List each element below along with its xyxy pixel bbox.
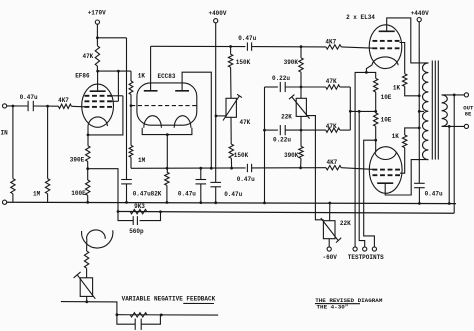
potentiometer balance 22K (box) xyxy=(296,98,306,116)
terminal OUT hot xyxy=(464,93,468,97)
EL34 lower cathode cup xyxy=(375,153,396,160)
svg-text:1M: 1M xyxy=(138,157,146,164)
node screen/+440V junction (lower) xyxy=(418,127,421,130)
EF86 control grid (dashed row 3) xyxy=(85,106,90,108)
node 10E junction xyxy=(374,110,377,113)
wire input to coupling cap xyxy=(7,105,28,107)
svg-text:VARIABLE NEGATIVE FEEDBACK: VARIABLE NEGATIVE FEEDBACK xyxy=(122,295,216,302)
node feedback/divider right xyxy=(159,210,162,213)
svg-text:150K: 150K xyxy=(234,152,249,159)
wire cap to 4K7 xyxy=(33,105,58,107)
capacitor 0.22u (upper) xyxy=(279,82,281,92)
potentiometer balance 47K (box) xyxy=(226,98,236,117)
ECC83 cathode dome a xyxy=(144,116,162,128)
node rail/150K junction xyxy=(230,167,233,170)
wire 1K to +440V line xyxy=(405,86,420,95)
node ECC83 grid node xyxy=(130,104,133,107)
EF86 suppressor grid (dashed row 1) xyxy=(85,95,90,97)
wire screen feed across xyxy=(97,37,126,39)
svg-text:1M: 1M xyxy=(33,190,41,197)
svg-text:1K: 1K xyxy=(138,72,146,79)
svg-text:560p: 560p xyxy=(129,228,144,235)
resistor anode load 47K xyxy=(95,46,99,66)
EF86 screen grid (dashed row 2) xyxy=(85,100,90,102)
EL34 lower control grid (dashes) xyxy=(373,169,378,171)
wiper arrow of bias pot xyxy=(321,218,341,243)
tube EL34 lower envelope xyxy=(369,147,402,194)
node cathode/rail junction xyxy=(166,167,169,170)
wire cap to ground xyxy=(126,184,128,203)
ECC83 common grid (dashed) xyxy=(131,105,197,107)
wire ground bus xyxy=(7,202,456,203)
wire screen feed down to decoupling cap xyxy=(126,38,128,180)
wire feedback tap to divider xyxy=(88,169,118,212)
svg-text:IN: IN xyxy=(1,130,9,137)
node ground 82K xyxy=(166,201,169,204)
svg-text:8E: 8E xyxy=(465,110,472,117)
wire +400V down (crosses top rail) to decoupling cap xyxy=(215,23,217,183)
tube EF86 envelope xyxy=(82,84,114,127)
resistor plate load 150K (upper) xyxy=(230,47,232,55)
EF86 cathode dome xyxy=(88,117,108,126)
node EF86 anode junction xyxy=(96,70,99,73)
terminal testpoint 3 xyxy=(372,247,376,251)
wire 100E to ground xyxy=(87,195,89,202)
node ground bias pot xyxy=(328,202,331,205)
svg-text:4K7: 4K7 xyxy=(326,159,337,166)
wire upper signal rail (EF86/ECC83 anode to EL34 upper grid) xyxy=(151,45,246,47)
node input-jack IN terminal (signal) xyxy=(3,104,7,108)
svg-text:100E: 100E xyxy=(71,190,86,197)
node rail/cap junction xyxy=(199,167,202,170)
node junction +170V/screen feed xyxy=(96,36,99,39)
node testpoint 3 tap xyxy=(374,139,377,142)
node lower RC right xyxy=(160,314,163,317)
terminal testpoint 2 xyxy=(363,247,367,251)
node balance network lower-left junction xyxy=(263,129,266,132)
node ground secondary xyxy=(448,202,451,205)
svg-text:22K: 22K xyxy=(281,114,292,121)
wire centre tap stub xyxy=(419,110,424,112)
resistor bias feed 390K (upper) xyxy=(300,47,302,58)
wire feedback line to divider xyxy=(118,212,454,214)
node rail/150K-column junction xyxy=(229,45,232,48)
wiper arrow of feedback trimmer xyxy=(74,272,96,299)
node ground screen cap xyxy=(125,201,128,204)
EL34 upper anode bar xyxy=(379,30,395,32)
tube EL34 upper envelope xyxy=(369,25,402,69)
wire lower RC cap loop xyxy=(117,315,160,325)
svg-text:47K: 47K xyxy=(82,53,93,60)
wire down to lower RC xyxy=(116,302,118,315)
node junction input/1M xyxy=(12,105,15,108)
wire EF86 screen stub right xyxy=(112,100,118,102)
resistor cathode 10E (lower) xyxy=(375,111,377,113)
node cathode feedback junction xyxy=(86,167,89,170)
node lower RC left xyxy=(116,313,119,316)
wire EL34 upper anode to primary top xyxy=(387,18,429,63)
resistor lower RC (unlabeled) xyxy=(130,313,147,317)
svg-text:47K: 47K xyxy=(326,123,337,130)
wiper arrow of 22K trimmer xyxy=(289,95,310,119)
wire cathode lead xyxy=(366,65,372,72)
svg-text:390K: 390K xyxy=(284,152,299,159)
resistor 47K (upper cross-coupling) xyxy=(326,85,340,89)
capacitor screen decoupling 0.47u xyxy=(121,179,132,181)
power +400V terminal xyxy=(214,19,218,23)
svg-text:0.47u: 0.47u xyxy=(178,191,196,198)
svg-text:0.47u: 0.47u xyxy=(224,191,242,198)
terminal OUT ground xyxy=(464,124,468,128)
capacitor lower RC (unlabeled) xyxy=(134,319,136,330)
EL34 upper control grid (dashes) xyxy=(373,47,378,49)
ECC83 cathode dome b xyxy=(174,116,191,128)
svg-text:4K7: 4K7 xyxy=(58,97,69,104)
resistor feedback series (unlabeled) xyxy=(84,251,88,268)
node junction screen tie xyxy=(117,70,120,73)
wire lower RC line xyxy=(117,314,218,316)
wire 82K to ground xyxy=(166,185,168,202)
svg-text:+170V: +170V xyxy=(88,10,106,17)
power +170V terminal xyxy=(95,20,99,24)
svg-text:+440V: +440V xyxy=(411,10,429,17)
wire 4K7 to EF86 grid xyxy=(71,105,84,108)
svg-text:390K: 390K xyxy=(284,59,299,66)
svg-text:0.47u: 0.47u xyxy=(425,190,443,197)
svg-text:0.22u: 0.22u xyxy=(272,75,290,82)
svg-text:ECC83: ECC83 xyxy=(157,73,175,80)
EL34 lower screen grid (dashes) xyxy=(373,174,378,176)
wire 22K wiper to bias feed xyxy=(306,116,323,220)
EL34 upper cathode dome xyxy=(372,57,398,65)
resistor grid-leak 1M xyxy=(47,106,49,179)
wire lower screen stub to 1K xyxy=(400,148,405,174)
svg-text:9K3: 9K3 xyxy=(134,203,145,210)
wire suppressor down to cathode xyxy=(88,96,123,135)
resistor screen stopper 1K (lower) xyxy=(403,135,407,148)
node feedback line junction xyxy=(85,300,88,303)
wire 390K column through 22K trimmer xyxy=(300,87,302,98)
svg-text:TESTPOINTS: TESTPOINTS xyxy=(348,254,384,261)
node junction grid-leak xyxy=(46,105,49,108)
terminal -60V xyxy=(327,247,331,251)
wire trimmer to feedback label line xyxy=(86,296,88,301)
wire bias pot from ground bus xyxy=(329,203,331,221)
svg-text:47K: 47K xyxy=(239,119,250,126)
node 390K/ac-rail junction (upper) xyxy=(300,86,303,89)
EL34 upper screen grid (dashes) xyxy=(373,40,378,42)
svg-text:10E: 10E xyxy=(381,116,392,123)
wire 560p loop xyxy=(118,212,161,221)
wire ac balance rail (lower) xyxy=(265,129,278,131)
wire anode node to 1K column xyxy=(98,70,131,72)
node rail/anode-b riser junction xyxy=(210,167,213,170)
wire ECC83 anode-b lead xyxy=(182,72,211,168)
svg-text:0.22u: 0.22u xyxy=(273,136,291,143)
capacitor +440V decoupling 0.47u xyxy=(414,182,425,184)
wire cathode to testpoint 1 xyxy=(355,72,366,246)
terminal testpoint 1 xyxy=(353,247,357,251)
capacitor 0.22u (lower) xyxy=(279,125,281,135)
node cathode junction upper xyxy=(365,71,368,74)
wire EF86 anode lead xyxy=(97,71,99,91)
capacitor +400V decoupling 0.47u xyxy=(210,181,221,183)
tube ECC83 envelope xyxy=(137,83,197,125)
capacitor C-in 0.47u xyxy=(27,101,29,111)
node screen/+440V junction (upper) xyxy=(418,94,421,97)
svg-text:47K: 47K xyxy=(326,78,337,85)
node ground rail cap xyxy=(199,201,202,204)
wire EF86 suppressor stub right xyxy=(112,95,123,97)
wire +440V down to decoupling cap xyxy=(418,22,420,184)
svg-text:EF86: EF86 xyxy=(75,73,90,80)
EL34 lower anode bar xyxy=(377,182,393,184)
resistor cathode 390E xyxy=(86,146,90,162)
node cathode bus centre xyxy=(166,133,169,136)
power +440V terminal xyxy=(417,18,421,22)
wire pigtail to resistor xyxy=(86,240,88,251)
resistor 47K (lower cross-coupling) xyxy=(326,128,340,132)
svg-text:22K: 22K xyxy=(340,220,351,227)
svg-text:82K: 82K xyxy=(151,191,162,198)
node centre tap junction xyxy=(418,110,421,113)
potentiometer variable feedback (box) xyxy=(80,278,92,297)
svg-text:0.47u: 0.47u xyxy=(237,176,255,183)
ECC83 anode plate bar (triode a) xyxy=(144,90,158,92)
svg-text:0.47u: 0.47u xyxy=(133,191,151,198)
resistor bias feed 390K (lower) xyxy=(300,130,302,146)
wire underline of title xyxy=(315,303,360,305)
transformer T1 primary winding xyxy=(422,63,428,160)
wire cathode to 10E xyxy=(366,72,375,78)
wire to testpoint 2 xyxy=(359,111,365,246)
capacitor feedback 560p xyxy=(132,216,134,225)
resistor grid stopper 4K7 (lower EL34) xyxy=(326,166,341,170)
node ground +400V cap xyxy=(214,201,217,204)
wire ac balance rail (upper) xyxy=(265,86,278,88)
wire left tie of balance network down to ground xyxy=(264,87,266,203)
wire ECC83 cathode bus xyxy=(142,128,192,135)
svg-text:1K: 1K xyxy=(392,133,400,140)
svg-text:THE 4-30": THE 4-30" xyxy=(317,303,349,310)
resistor cathode 100E xyxy=(86,180,90,195)
wire screen tie down to EF86 screen grid xyxy=(117,71,119,101)
wire lower rail continues xyxy=(252,167,326,169)
wire to testpoint 3 xyxy=(364,140,376,247)
transformer T1 secondary winding xyxy=(442,95,448,127)
node testpoint 2 tap xyxy=(358,110,361,113)
svg-text:2 x EL34: 2 x EL34 xyxy=(346,14,375,21)
wiper arrow of 47K trimmer xyxy=(223,94,242,120)
wire screen stub to 1K xyxy=(400,43,405,74)
capacitor 0.47u rail to ground xyxy=(200,168,202,179)
node feedback tap xyxy=(453,94,456,97)
resistor cathode 10E (upper) xyxy=(374,78,378,92)
node balance/cathode-sense junction xyxy=(349,110,352,113)
resistor ECC83 grid stopper 1K xyxy=(130,71,132,81)
node +400V / 47K-trimmer stub xyxy=(215,115,218,118)
wire secondary to ground bus xyxy=(448,126,450,203)
node lower rail/390K junction xyxy=(299,166,302,169)
resistor input shunt 1M (left, unlabeled) xyxy=(12,106,14,179)
wire variable negative feedback line xyxy=(61,301,118,303)
wire underline under FEEDBACK xyxy=(183,302,214,304)
svg-text:+400V: +400V xyxy=(208,10,226,17)
node 390K/ac-rail junction (lower) xyxy=(300,129,303,132)
wire +170V down xyxy=(96,24,98,46)
wire to upper EL34 grid xyxy=(341,47,374,48)
node suppressor/cathode junction xyxy=(87,134,90,137)
wire stub to trimmer xyxy=(216,115,226,117)
svg-text:1K: 1K xyxy=(393,84,401,91)
capacitor series coupling 0.47u (upper) xyxy=(246,42,248,50)
wire ECC83 anode-a lead to top rail xyxy=(150,46,152,91)
wire lower signal rail (to EL34 lower grid) xyxy=(131,167,246,169)
wire cathode down to rail xyxy=(166,135,168,173)
wire feedback line down xyxy=(453,95,455,213)
potentiometer bias 22K (box) xyxy=(323,221,335,239)
wire secondary bottom xyxy=(442,125,465,127)
wire 47K to EF86 anode node xyxy=(96,66,98,71)
svg-text:10E: 10E xyxy=(381,94,392,101)
resistor cathode bias 82K xyxy=(165,172,169,185)
transformer core xyxy=(431,61,433,160)
ground terminal of input jack xyxy=(3,200,7,204)
wire EL34 lower anode to primary bottom xyxy=(385,160,428,195)
EF86 anode plate bar xyxy=(90,90,106,92)
resistor plate load 150K (lower) xyxy=(230,117,232,144)
ECC83 anode plate bar (triode b) xyxy=(175,90,189,92)
node rail/390K junction xyxy=(300,45,303,48)
resistor ECC83 grid leak 1M xyxy=(130,106,132,146)
resistor feedback 9K3 xyxy=(130,209,147,213)
wire secondary top to OUT terminal xyxy=(442,94,465,96)
node ground balance network xyxy=(263,201,266,204)
node ground +440V cap xyxy=(418,202,421,205)
resistor screen stopper 1K (upper) xyxy=(403,74,407,87)
svg-text:0.47u: 0.47u xyxy=(20,94,38,101)
resistor grid stopper 4K7 xyxy=(58,104,71,108)
wire lower 1K to +440V line xyxy=(405,128,420,135)
svg-text:4K7: 4K7 xyxy=(325,38,336,45)
svg-text:0.47u: 0.47u xyxy=(238,35,256,42)
wire right tie of balance network xyxy=(349,87,351,130)
svg-text:150K: 150K xyxy=(236,59,251,66)
pigtail coil symbol (to output) xyxy=(82,230,113,248)
wire bias pot to -60V terminal xyxy=(328,239,330,247)
node feedback/divider left xyxy=(117,210,120,213)
wire to lower EL34 grid xyxy=(341,168,374,170)
svg-text:390E: 390E xyxy=(70,156,85,163)
resistor grid stopper 4K7 (upper EL34) xyxy=(326,45,341,49)
svg-text:-60V: -60V xyxy=(322,254,337,261)
node secondary ground tap xyxy=(448,125,451,128)
capacitor series coupling 0.47u (lower) xyxy=(246,164,248,172)
node ground 100E xyxy=(86,201,89,204)
wire EF86 cathode lead xyxy=(87,126,89,146)
wire resistor to trimmer xyxy=(86,268,88,278)
wire cathode sense line xyxy=(350,110,375,112)
